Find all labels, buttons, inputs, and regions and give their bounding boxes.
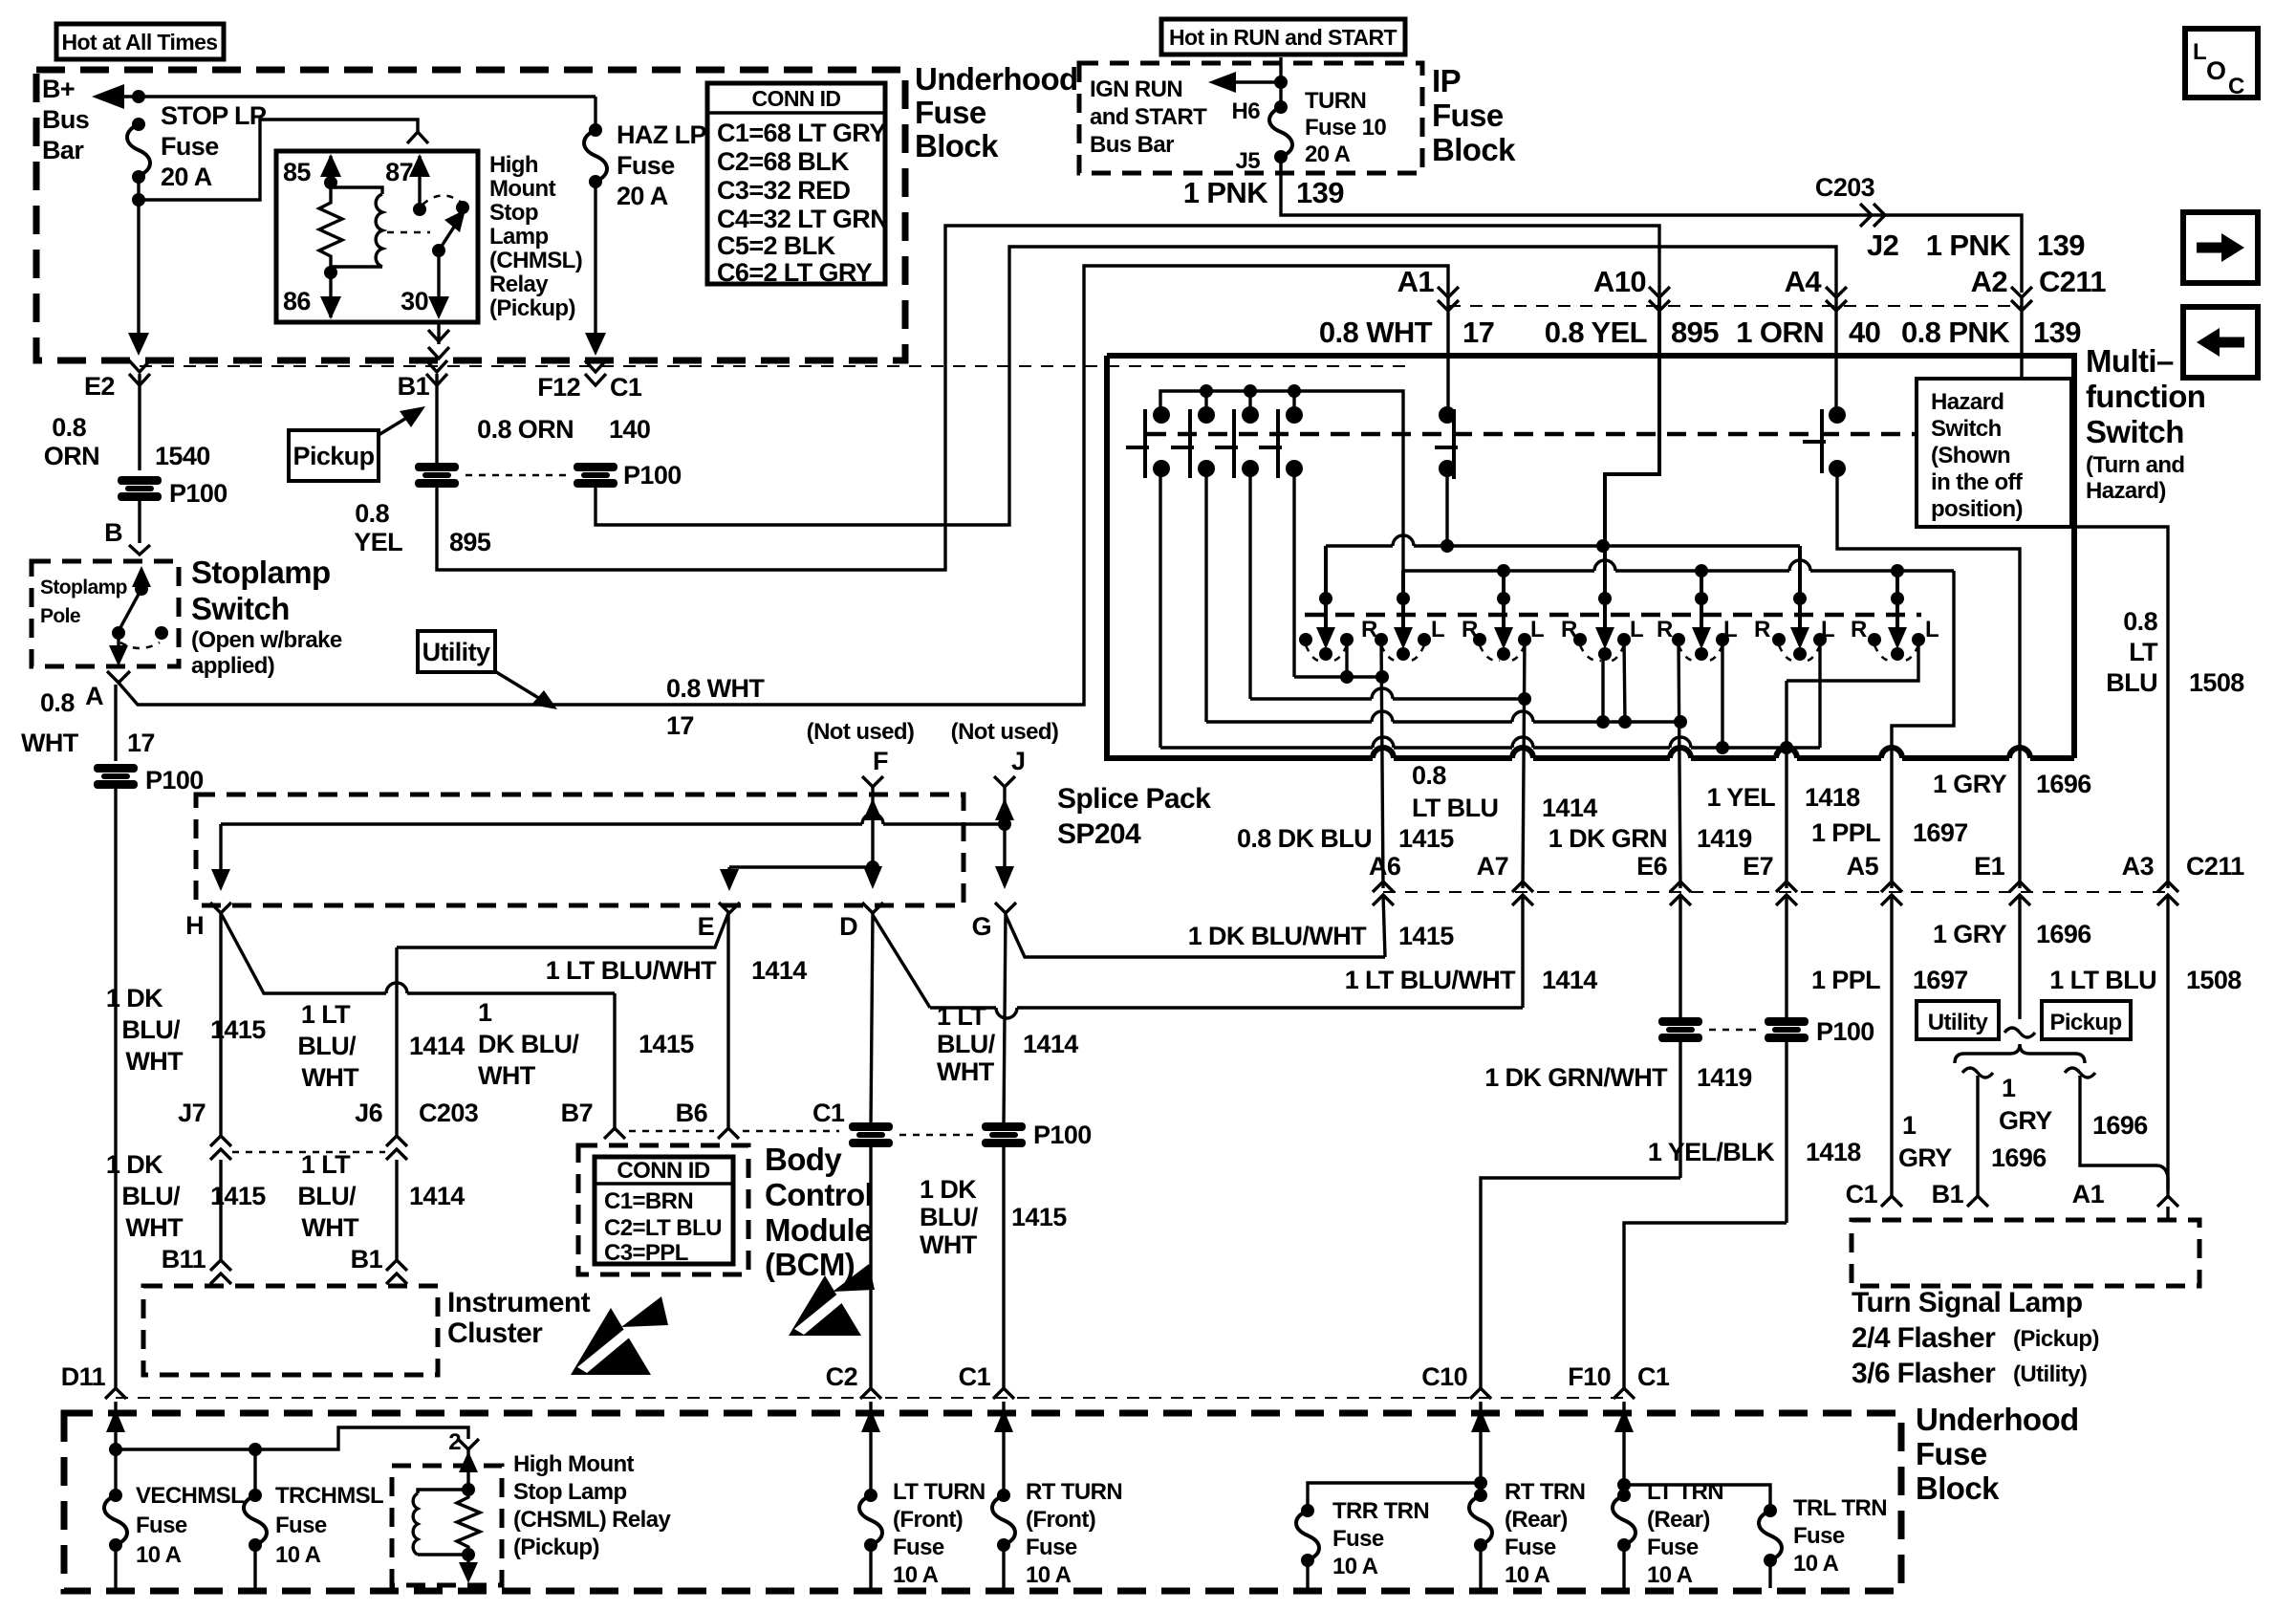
wire labels row (0.8 WHT 17 / 0.8 YEL 895 / 1 ORN 40 / 0.8 PNK 139) (1319, 316, 2081, 349)
svg-text:High: High (489, 152, 538, 178)
splice pack label (1057, 783, 1211, 850)
svg-text:R: R (1462, 617, 1478, 642)
R L labels (1361, 617, 1939, 642)
svg-text:L: L (1925, 617, 1939, 642)
switch contact 2 (1171, 406, 1215, 478)
svg-text:WHT: WHT (21, 729, 79, 757)
label box Utility (flasher) (1917, 1001, 1999, 1039)
svg-text:Fuse: Fuse (1505, 1535, 1556, 1560)
wire J7 to B11 (106, 1150, 266, 1284)
wire A2 into hazard switch (2020, 297, 2023, 379)
svg-text:H6: H6 (1232, 98, 1261, 124)
svg-text:1696: 1696 (2036, 770, 2091, 798)
svg-text:10 A: 10 A (1647, 1562, 1693, 1588)
wire A5 1 PPL 1697 to flasher C1 (1811, 895, 1968, 1208)
multifunction switch label (2086, 343, 2205, 504)
svg-text:C: C (2228, 74, 2244, 99)
svg-text:1 LT: 1 LT (937, 1002, 986, 1031)
svg-text:R: R (1851, 617, 1867, 642)
svg-text:1 GRY: 1 GRY (1933, 920, 2007, 948)
splice pack dashed box (196, 795, 964, 905)
svg-text:1508: 1508 (2189, 668, 2244, 697)
svg-text:(Utility): (Utility) (2013, 1361, 2087, 1387)
svg-text:LT TURN: LT TURN (893, 1479, 986, 1505)
svg-text:Fuse: Fuse (161, 132, 219, 161)
wire E2 0.8 ORN 1540 (44, 374, 210, 470)
svg-text:C1: C1 (1846, 1180, 1878, 1208)
svg-text:A10: A10 (1593, 265, 1646, 298)
svg-text:TRCHMSL: TRCHMSL (275, 1483, 383, 1509)
relay resistor (319, 183, 342, 272)
svg-text:C203: C203 (1815, 173, 1875, 202)
svg-text:O: O (2206, 56, 2225, 85)
svg-text:SP204: SP204 (1057, 818, 1141, 850)
contact bank top bus (1160, 384, 1403, 571)
svg-text:Fuse: Fuse (1916, 1436, 1987, 1471)
svg-text:0.8: 0.8 (2123, 607, 2157, 636)
wire HAZ LP down to C1 (585, 182, 606, 356)
svg-text:(BCM): (BCM) (765, 1247, 855, 1282)
svg-text:LT BLU: LT BLU (1412, 794, 1498, 822)
svg-text:L: L (1431, 617, 1444, 642)
node A below stoplamp switch (85, 671, 130, 710)
svg-text:IP: IP (1432, 63, 1461, 98)
label 0.8 LT BLU 1508 (right) (2106, 607, 2244, 697)
svg-text:E6: E6 (1636, 852, 1667, 881)
svg-text:C1: C1 (812, 1099, 845, 1127)
fuse TURN 20A (1232, 88, 1387, 174)
svg-text:R: R (1361, 617, 1377, 642)
svg-text:Control: Control (765, 1177, 873, 1212)
wire H 1 DK BLU/WHT 1415 to J7 and B7 (106, 913, 694, 1136)
svg-text:1419: 1419 (1697, 824, 1752, 853)
svg-text:Fuse: Fuse (915, 95, 986, 130)
grommet P100 (D wire) (849, 1122, 893, 1147)
relay coil (331, 187, 382, 267)
flasher branch right (A1) (2065, 1068, 2178, 1208)
svg-text:1415: 1415 (1011, 1203, 1067, 1231)
svg-text:0.8: 0.8 (355, 499, 389, 528)
switch contact mechanical linkage (dashed) (1147, 432, 1915, 437)
relay pin 86 (283, 266, 341, 319)
wire E6 1 DK GRN/WHT 1419 to C10 (1481, 895, 1752, 1388)
switch contact 5 (turn feed) (1435, 406, 1458, 546)
svg-text:10 A: 10 A (136, 1542, 182, 1568)
svg-text:Fuse: Fuse (1793, 1523, 1845, 1549)
svg-text:C2: C2 (826, 1362, 857, 1391)
svg-text:1414: 1414 (409, 1182, 465, 1210)
svg-text:139: 139 (1296, 176, 1344, 209)
splice exits H E D G (185, 903, 1016, 941)
wiper feed 5 (1692, 571, 1711, 649)
wiper feed 6 (1790, 546, 1809, 649)
grommet P100 (G wire) (982, 1121, 1092, 1149)
svg-text:CONN ID: CONN ID (617, 1158, 709, 1184)
svg-text:3/6 Flasher: 3/6 Flasher (1852, 1358, 1996, 1389)
svg-text:1414: 1414 (1542, 966, 1597, 994)
svg-text:C2=68 BLK: C2=68 BLK (717, 147, 850, 176)
fuse STOP LP 20A (127, 101, 267, 191)
wire A6 1 DK BLU/WHT 1415 to splice G (1006, 895, 1454, 957)
svg-text:C2=LT BLU: C2=LT BLU (604, 1215, 722, 1241)
svg-text:LT TRN: LT TRN (1647, 1479, 1723, 1505)
pin labels E2 B1 F12 C1 (84, 372, 642, 402)
svg-text:1415: 1415 (210, 1015, 266, 1044)
BCM connector labels (561, 1099, 845, 1131)
svg-text:ORN: ORN (44, 442, 99, 470)
fuse TRR TRN 10A (1296, 1498, 1429, 1588)
svg-text:B11: B11 (162, 1245, 206, 1274)
svg-text:1415: 1415 (210, 1182, 266, 1210)
svg-text:86: 86 (283, 287, 311, 316)
svg-text:B6: B6 (676, 1099, 708, 1127)
svg-text:Block: Block (915, 128, 999, 163)
svg-text:0.8 ORN: 0.8 ORN (477, 415, 574, 444)
svg-text:Fuse: Fuse (893, 1535, 944, 1560)
table CONN ID (underhood) (707, 83, 888, 287)
grommet P100 (E6 wire) (1658, 1017, 1702, 1042)
svg-text:Cluster: Cluster (447, 1317, 543, 1349)
dashed link P100 D-G (899, 1134, 975, 1137)
svg-text:87: 87 (385, 158, 413, 186)
IP fuse block dashed box (1079, 63, 1422, 173)
svg-text:F12: F12 (537, 373, 580, 402)
relay pin 30 (401, 244, 449, 319)
svg-text:10 A: 10 A (1793, 1551, 1839, 1577)
tilde break on E1 wire (2004, 1028, 2035, 1037)
wire from STOP LP fuse to relay pin 87 (132, 120, 428, 207)
relay pin 85 (283, 154, 341, 189)
exit wire A6 (pair2 L) (1381, 640, 1383, 888)
svg-text:E: E (698, 912, 714, 941)
svg-text:Fuse 10: Fuse 10 (1305, 115, 1386, 141)
svg-text:1540: 1540 (155, 442, 210, 470)
wire C10 into box (1308, 1402, 1490, 1511)
svg-text:10 A: 10 A (1026, 1562, 1072, 1588)
svg-text:20 A: 20 A (161, 163, 212, 191)
svg-text:1 PPL: 1 PPL (1811, 966, 1880, 994)
svg-text:A7: A7 (1477, 852, 1508, 881)
connector C203 marker (1815, 173, 1885, 227)
connector line below underhood box (129, 360, 1410, 385)
svg-text:Lamp: Lamp (489, 224, 549, 250)
svg-text:10 A: 10 A (1332, 1554, 1378, 1579)
svg-text:1418: 1418 (1805, 783, 1860, 812)
svg-text:1414: 1414 (1023, 1030, 1078, 1058)
svg-text:10 A: 10 A (1505, 1562, 1550, 1588)
wire B6 chevron (718, 1128, 739, 1139)
svg-text:F10: F10 (1568, 1362, 1611, 1391)
grommet P100 (E2 wire) (118, 476, 227, 508)
svg-text:C1: C1 (610, 373, 642, 402)
svg-text:Switch: Switch (1931, 416, 2002, 442)
label box Pickup with arrow (289, 406, 425, 481)
svg-text:Stop: Stop (489, 200, 538, 226)
fuse TRCHMSL 10A (244, 1449, 383, 1588)
wire 0.8 WHT 17 horizontal run to A1 (119, 266, 1448, 740)
svg-text:895: 895 (449, 528, 491, 556)
bottom connector row (underhood fuse block) (61, 1362, 1670, 1399)
wire relay pin30 to B1 (428, 322, 449, 359)
dashed link between P100 grommets (466, 474, 571, 477)
svg-text:Module: Module (765, 1212, 872, 1248)
svg-text:BLU/: BLU/ (297, 1182, 357, 1210)
svg-text:WHT: WHT (920, 1230, 978, 1259)
svg-text:Fuse: Fuse (1332, 1526, 1384, 1552)
wire D11 into box with arrow (106, 1402, 125, 1456)
svg-text:Pickup: Pickup (293, 442, 375, 470)
svg-text:85: 85 (283, 158, 311, 186)
svg-text:A3: A3 (2122, 852, 2155, 881)
svg-text:1 PNK: 1 PNK (1926, 229, 2012, 262)
svg-text:R: R (1657, 617, 1673, 642)
stoplamp switch dashed box (32, 561, 179, 666)
svg-text:140: 140 (609, 415, 650, 444)
bus to CHSML relay (116, 1427, 479, 1456)
svg-text:1697: 1697 (1913, 966, 1968, 994)
svg-text:Bus Bar: Bus Bar (1090, 132, 1174, 158)
svg-text:1 LT BLU/WHT: 1 LT BLU/WHT (546, 956, 717, 985)
underhood fuse block dashed box (top) (36, 70, 905, 360)
relay pin 87 (385, 154, 430, 216)
splice bus 1 (H to J) (211, 814, 1011, 891)
svg-text:Mount: Mount (489, 176, 556, 202)
svg-text:1419: 1419 (1697, 1063, 1752, 1092)
svg-text:(Front): (Front) (893, 1507, 963, 1533)
svg-text:C10: C10 (1421, 1362, 1467, 1391)
svg-text:L: L (1723, 617, 1737, 642)
splice pin J (not used) (951, 719, 1059, 820)
svg-text:Stoplamp: Stoplamp (40, 577, 127, 599)
svg-text:J7: J7 (178, 1099, 206, 1127)
relay name text (489, 152, 582, 321)
svg-text:0.8 WHT: 0.8 WHT (1319, 316, 1433, 349)
svg-text:A1: A1 (1397, 265, 1435, 298)
svg-text:IGN RUN: IGN RUN (1090, 76, 1182, 102)
wire STOP LP down to E2 (128, 177, 149, 356)
svg-text:1697: 1697 (1913, 818, 1968, 847)
svg-text:GRY: GRY (1898, 1143, 1952, 1172)
stoplamp switch contacts (109, 566, 168, 666)
svg-text:D: D (839, 912, 857, 941)
fuse TRL TRN 10A (1759, 1495, 1887, 1588)
svg-text:VECHMSL: VECHMSL (136, 1483, 244, 1509)
fuse HAZ LP 20A (584, 97, 706, 210)
svg-text:Bar: Bar (42, 136, 84, 164)
label box Utility with arrow (418, 631, 557, 709)
svg-text:10 A: 10 A (893, 1562, 939, 1588)
svg-text:Utility: Utility (422, 638, 490, 666)
svg-text:B1: B1 (398, 372, 430, 401)
svg-text:1 LT: 1 LT (301, 1150, 351, 1179)
svg-text:C1=BRN: C1=BRN (604, 1188, 693, 1214)
svg-text:P100: P100 (1033, 1121, 1092, 1149)
wire 0.8 YEL 895 run to A10 (354, 226, 1659, 570)
svg-text:20 A: 20 A (1305, 142, 1351, 167)
svg-text:Hazard: Hazard (1931, 389, 2004, 415)
wire J6 to B1 (297, 1150, 465, 1284)
fuse LT TRN (Rear) 10A (1613, 1479, 1723, 1588)
stoplamp switch label (191, 555, 342, 679)
svg-text:Hot in RUN and START: Hot in RUN and START (1169, 25, 1397, 50)
svg-text:C211: C211 (2186, 852, 2244, 881)
BCM dashed box (578, 1145, 748, 1274)
svg-text:BLU/: BLU/ (121, 1182, 181, 1210)
svg-text:G: G (972, 912, 991, 941)
svg-text:1508: 1508 (2186, 966, 2242, 994)
svg-text:B1: B1 (351, 1245, 383, 1274)
svg-text:(Shown: (Shown (1931, 443, 2010, 468)
svg-text:1418: 1418 (1806, 1138, 1861, 1166)
svg-text:C211: C211 (2039, 265, 2106, 298)
svg-text:1: 1 (478, 998, 492, 1027)
svg-text:A1: A1 (2072, 1180, 2105, 1208)
svg-text:H: H (185, 911, 204, 940)
wire E 1 LT BLU/WHT 1414 to J6 and B6 (297, 913, 807, 1136)
svg-text:A: A (85, 682, 103, 710)
svg-text:J6: J6 (355, 1099, 382, 1127)
svg-text:0.8 DK BLU: 0.8 DK BLU (1237, 824, 1372, 853)
svg-text:1415: 1415 (1398, 824, 1454, 853)
svg-text:CONN ID: CONN ID (752, 86, 841, 111)
wire A7 1 LT BLU/WHT 1414 to splice D (873, 895, 1597, 1018)
wiper feed 3 (1494, 571, 1513, 649)
label underhood fuse block (bottom) (1916, 1402, 2079, 1506)
svg-text:Body: Body (765, 1142, 842, 1177)
interior line contact4 to A6 junction (1294, 468, 1389, 684)
svg-text:HAZ LP: HAZ LP (617, 120, 706, 149)
svg-text:Multi–: Multi– (2086, 343, 2174, 379)
connector row C211 (top) (1397, 265, 2107, 311)
svg-text:Hazard): Hazard) (2086, 478, 2166, 504)
svg-text:L: L (1630, 617, 1643, 642)
svg-text:LT: LT (2129, 638, 2158, 666)
svg-text:Splice Pack: Splice Pack (1057, 783, 1211, 815)
svg-text:BLU/: BLU/ (297, 1032, 357, 1060)
svg-text:Pole: Pole (40, 605, 80, 627)
wire 0.8 ORN 140 run to A4 (596, 247, 1836, 525)
instrument cluster dashed box (143, 1286, 438, 1375)
svg-text:WHT: WHT (125, 1213, 184, 1242)
turn signal lamp flasher dashed box (1852, 1220, 2199, 1286)
labels above C211 row (1237, 761, 2091, 853)
svg-text:P100: P100 (145, 766, 204, 795)
svg-text:J5: J5 (1236, 148, 1261, 174)
wire 1 PNK 139 run to A2 (1281, 157, 2022, 293)
interior line pair7L to E7 exit (1787, 640, 1918, 681)
svg-text:0.8: 0.8 (40, 688, 75, 717)
label box Pickup (flasher) (2042, 1001, 2131, 1039)
svg-text:1414: 1414 (409, 1032, 465, 1060)
svg-text:1 DK GRN/WHT: 1 DK GRN/WHT (1484, 1063, 1668, 1092)
svg-text:C3=32 RED: C3=32 RED (717, 176, 851, 205)
IP bus arrow (1208, 57, 1288, 107)
svg-text:Fuse: Fuse (1026, 1535, 1077, 1560)
wire A10 into switch (1605, 297, 1659, 642)
svg-text:Switch: Switch (191, 591, 290, 626)
svg-text:1 GRY: 1 GRY (1933, 770, 2007, 798)
svg-text:(Pickup): (Pickup) (489, 295, 575, 321)
svg-text:1 DK: 1 DK (920, 1175, 977, 1204)
svg-text:C1=68 LT GRY: C1=68 LT GRY (717, 119, 886, 147)
wiper feed 2 (1394, 571, 1413, 649)
wire hazard box to A3 output (2071, 527, 2168, 888)
flasher branch left (B1) (1932, 1068, 1993, 1208)
svg-text:0.8: 0.8 (1412, 761, 1446, 790)
svg-text:C203: C203 (419, 1099, 479, 1127)
relay CHSML (bottom) dashed box (392, 1466, 502, 1585)
wire B1 0.8 YEL 895 (437, 374, 650, 464)
exit wire A7 (pair3 R) (1523, 640, 1525, 888)
instrument cluster label (447, 1287, 591, 1349)
svg-text:BLU/: BLU/ (937, 1030, 996, 1058)
wiper contacts row (dots and dashed arcs) (1299, 633, 1925, 661)
icon box left arrow (2183, 307, 2258, 378)
wiper feed 7 (1888, 571, 1907, 649)
svg-text:WHT: WHT (301, 1063, 359, 1092)
dashed link P100 (1709, 1029, 1759, 1032)
svg-text:1 LT BLU/WHT: 1 LT BLU/WHT (1345, 966, 1516, 994)
svg-text:WHT: WHT (125, 1047, 184, 1076)
instrument cluster connector J7 J6 C203 (178, 1099, 479, 1160)
svg-text:Fuse: Fuse (617, 151, 675, 180)
svg-text:17: 17 (666, 711, 694, 740)
flasher branch labels (1898, 1074, 2148, 1172)
wire E1 1 GRY 1696 to flasher (1933, 895, 2091, 1019)
svg-text:(CHSML) Relay: (CHSML) Relay (513, 1507, 671, 1533)
svg-text:L: L (2193, 39, 2206, 65)
svg-text:1: 1 (1902, 1111, 1917, 1140)
svg-text:C4=32 LT GRN: C4=32 LT GRN (717, 205, 888, 233)
underhood fuse block dashed box (bottom) (64, 1413, 1901, 1591)
svg-text:895: 895 (1671, 316, 1719, 349)
svg-text:B+: B+ (42, 75, 75, 103)
svg-text:BLU/: BLU/ (121, 1015, 181, 1044)
relay CHMSL (pickup) box (276, 151, 478, 322)
svg-text:F: F (873, 747, 888, 775)
svg-text:B7: B7 (561, 1099, 593, 1127)
svg-text:Switch: Switch (2086, 414, 2184, 449)
fuse VECHMSL 10A (104, 1449, 244, 1588)
relay CHSML label (513, 1451, 671, 1560)
svg-text:WHT: WHT (937, 1057, 995, 1086)
wire E7 1 YEL/BLK 1418 to C1 (1624, 895, 1861, 1388)
grommet P100 (E7 wire) (1765, 1017, 1874, 1046)
svg-text:1 ORN: 1 ORN (1736, 316, 1824, 349)
svg-text:C6=2 LT GRY: C6=2 LT GRY (717, 258, 873, 287)
svg-text:WHT: WHT (478, 1061, 536, 1090)
svg-text:L: L (1821, 617, 1834, 642)
svg-text:C1: C1 (1637, 1362, 1670, 1391)
svg-text:0.8 PNK: 0.8 PNK (1901, 316, 2010, 349)
svg-text:40: 40 (1849, 316, 1880, 349)
svg-text:Fuse: Fuse (1647, 1535, 1699, 1560)
switch contact 1 (1126, 406, 1170, 478)
svg-text:GRY: GRY (1999, 1106, 2052, 1135)
svg-text:R: R (1561, 617, 1577, 642)
svg-text:Stop Lamp: Stop Lamp (513, 1479, 627, 1505)
svg-text:TURN: TURN (1305, 88, 1366, 114)
svg-text:position): position) (1931, 496, 2023, 522)
svg-text:TRR TRN: TRR TRN (1332, 1498, 1429, 1524)
svg-text:P100: P100 (169, 479, 227, 508)
svg-text:1 PNK: 1 PNK (1183, 176, 1269, 209)
svg-text:P100: P100 (1816, 1017, 1874, 1046)
svg-text:YEL: YEL (354, 528, 402, 556)
wire B7 chevron (604, 1128, 625, 1139)
connector row C211 (bottom) (1369, 852, 2244, 905)
svg-text:C5=2 BLK: C5=2 BLK (717, 231, 836, 260)
